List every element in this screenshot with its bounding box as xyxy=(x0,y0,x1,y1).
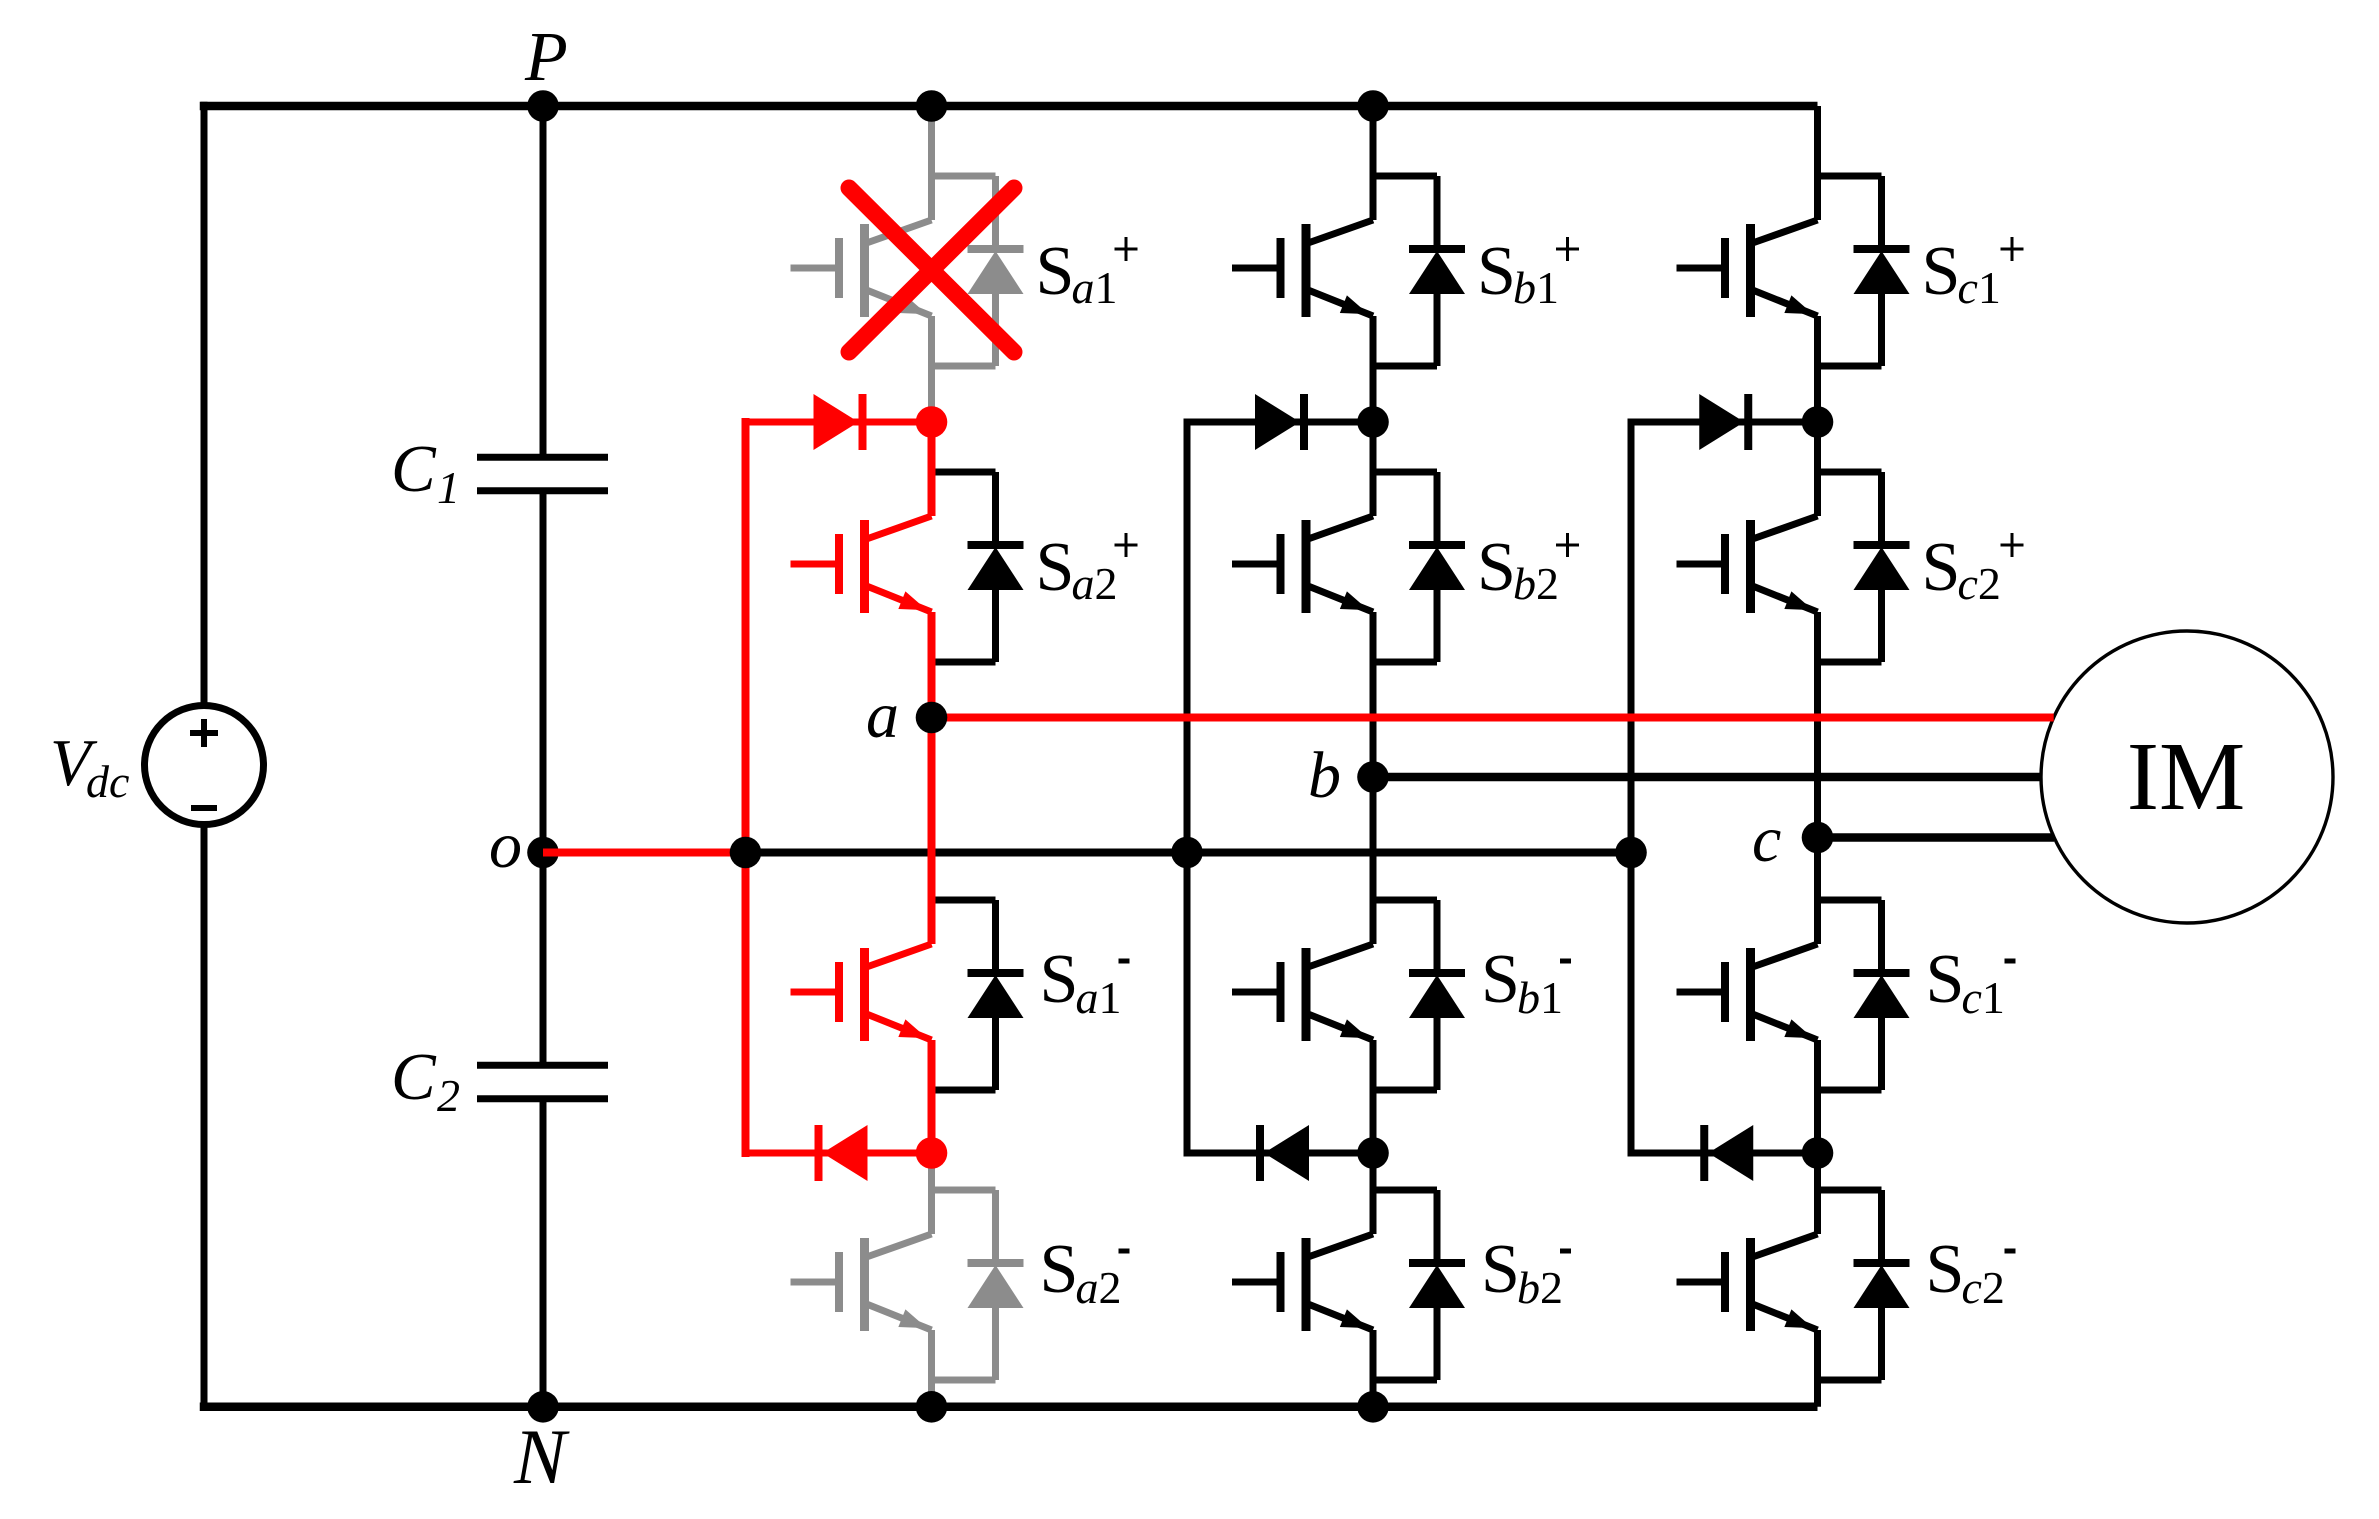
label Sa2- xyxy=(1040,1231,1130,1313)
diode clamp lower Da2 (red) xyxy=(746,1125,932,1181)
wire DC link C2 to N xyxy=(540,1102,547,1407)
svg-text:S: S xyxy=(1481,1231,1520,1308)
diode clamp lower Db2 xyxy=(1187,1125,1373,1181)
svg-text:S: S xyxy=(1922,529,1961,606)
label c xyxy=(1752,803,1781,876)
label Sc1- xyxy=(1926,941,2016,1023)
wire b-leg Sb1+ emitter to Sb2+ collector xyxy=(1370,316,1377,516)
label Vdc xyxy=(50,726,129,807)
svg-text:b2: b2 xyxy=(1517,1262,1563,1313)
svg-text:a2: a2 xyxy=(1076,1262,1122,1313)
diode antiparallel of Sb1- xyxy=(1373,900,1465,1090)
svg-text:S: S xyxy=(1926,1231,1965,1308)
node N (dot) xyxy=(527,1391,559,1423)
wire red Sa2+ collector xyxy=(928,422,936,516)
transistor Sb2- (IGBT) xyxy=(1232,1234,1373,1331)
wire phase a output to motor (red) xyxy=(932,714,2054,722)
label o xyxy=(489,809,522,882)
svg-text:S: S xyxy=(1036,529,1075,606)
diode antiparallel of Sb2+ xyxy=(1373,472,1465,662)
wire DC link C1 to o xyxy=(540,494,547,853)
node phase b (dot) xyxy=(1357,761,1389,793)
svg-text:c2: c2 xyxy=(1958,558,2001,609)
node phase a (dot) xyxy=(916,702,948,734)
svg-text:S: S xyxy=(1926,941,1965,1018)
label Sc2+ xyxy=(1922,529,2024,609)
svg-text:2: 2 xyxy=(437,1070,460,1121)
wire clamp vertical leg c xyxy=(1628,419,1635,1157)
svg-text:c1: c1 xyxy=(1962,972,2005,1023)
label Sa2+ xyxy=(1036,529,1138,609)
wire c-leg collector lead Sc1+ xyxy=(1814,106,1821,220)
diode clamp upper Dc1 xyxy=(1631,394,1818,450)
wire DC link P to C1 xyxy=(540,106,547,454)
transistor Sb1+ (IGBT) xyxy=(1232,220,1373,317)
transistor Sc2- (IGBT) xyxy=(1677,1234,1818,1331)
svg-text:S: S xyxy=(1040,1231,1079,1308)
node upper clamp junction leg b (dot) xyxy=(1357,406,1389,438)
svg-text:P: P xyxy=(524,19,568,96)
svg-text:c2: c2 xyxy=(1962,1262,2005,1313)
transistor Sb1- (IGBT) xyxy=(1232,944,1373,1041)
wire b-leg Sb2+ emitter through node b to Sb1- collector xyxy=(1370,612,1377,944)
svg-text:1: 1 xyxy=(437,462,460,513)
node bottom rail junction leg a (dot) xyxy=(916,1391,948,1423)
wire red Sa1- emitter to clamp xyxy=(928,1040,936,1153)
diode antiparallel of Sa1- (black) xyxy=(932,900,1024,1090)
node red junction lower clamp leg a xyxy=(916,1137,948,1169)
transistor Sc2+ (IGBT) xyxy=(1677,516,1818,613)
wire c-leg Sc1- emitter to lower clamp xyxy=(1814,1040,1821,1153)
label Sa1+ xyxy=(1036,233,1138,313)
label Sa1- xyxy=(1040,941,1130,1023)
svg-text:b: b xyxy=(1308,739,1341,812)
wire phase c output to motor xyxy=(1818,833,2055,842)
diode clamp upper Db1 xyxy=(1187,394,1373,450)
diode clamp lower Dc2 xyxy=(1631,1125,1818,1181)
label b xyxy=(1308,739,1341,812)
wire red Sa2+ emitter to node a xyxy=(928,612,936,718)
svg-text:a: a xyxy=(866,679,899,752)
svg-text:N: N xyxy=(513,1413,570,1500)
node top rail junction leg a (dot) xyxy=(916,90,948,122)
diode antiparallel of Sa2+ (black) xyxy=(932,472,1024,662)
label Sb1- xyxy=(1481,941,1571,1023)
wire b-leg collector lead Sb1+ xyxy=(1370,106,1377,220)
diode antiparallel of Sc2- xyxy=(1818,1190,1910,1380)
node P (dot) xyxy=(527,90,559,122)
source Vdc circle xyxy=(145,706,264,825)
node bottom rail junction leg b (dot) xyxy=(1357,1391,1389,1423)
node phase c (dot) xyxy=(1802,822,1834,854)
diode antiparallel of Sc2+ xyxy=(1818,472,1910,662)
svg-text:S: S xyxy=(1036,233,1075,310)
node o (dot) xyxy=(527,837,559,869)
transistor Sb2+ (IGBT) xyxy=(1232,516,1373,613)
svg-text:c1: c1 xyxy=(1958,262,2001,313)
wire gray collector lead Sa2- xyxy=(928,1153,935,1234)
label a xyxy=(866,679,899,752)
transistor Sa1- (red IGBT) xyxy=(791,944,932,1041)
node upper clamp junction leg c (dot) xyxy=(1802,406,1834,438)
svg-text:S: S xyxy=(1922,233,1961,310)
source Vdc plus sign xyxy=(190,719,218,747)
diode antiparallel of Sc1+ xyxy=(1818,176,1910,366)
wire b-leg Sb2- emitter to bottom rail xyxy=(1370,1330,1377,1407)
fault cross over Sa1+ (red X) xyxy=(849,188,1014,352)
source Vdc minus sign xyxy=(191,805,217,811)
node lower clamp junction leg c (dot) xyxy=(1802,1137,1834,1169)
svg-text:IM: IM xyxy=(2127,723,2246,830)
motor IM circle xyxy=(2041,631,2333,923)
wire red clamp vertical leg a xyxy=(742,418,750,1157)
wire c-leg Sc2- emitter to bottom rail xyxy=(1814,1330,1821,1407)
svg-text:S: S xyxy=(1040,941,1079,1018)
svg-text:a1: a1 xyxy=(1072,262,1118,313)
label Sb1+ xyxy=(1477,233,1579,313)
diode antiparallel of Sa1+ (gray) xyxy=(932,176,1024,366)
label IM xyxy=(2127,723,2246,830)
svg-text:S: S xyxy=(1481,941,1520,1018)
diode antiparallel of Sa2- (gray) xyxy=(932,1190,1024,1380)
svg-text:C: C xyxy=(391,432,437,506)
label Sb2- xyxy=(1481,1231,1571,1313)
svg-text:a1: a1 xyxy=(1076,972,1122,1023)
transistor Sa1+ (gray, failed IGBT) xyxy=(791,220,932,317)
transistor Sc1+ (IGBT) xyxy=(1677,220,1818,317)
wire left vertical lower (source -) xyxy=(201,825,208,1412)
capacitor C2 xyxy=(477,1065,608,1099)
node top rail junction leg b (dot) xyxy=(1357,90,1389,122)
svg-text:b1: b1 xyxy=(1517,972,1563,1023)
diode antiparallel of Sc1- xyxy=(1818,900,1910,1090)
svg-text:b1: b1 xyxy=(1513,262,1559,313)
svg-text:o: o xyxy=(489,809,522,882)
label C2 xyxy=(391,1040,460,1121)
label P xyxy=(524,19,568,96)
wire red o to junction xyxy=(543,849,746,857)
svg-text:S: S xyxy=(1477,529,1516,606)
svg-text:dc: dc xyxy=(86,756,129,807)
capacitor C1 xyxy=(477,457,608,491)
node lower clamp junction leg b (dot) xyxy=(1357,1137,1389,1169)
svg-text:c: c xyxy=(1752,803,1781,876)
wire gray emitter lead Sa2- xyxy=(928,1330,935,1407)
wire bottom rail N xyxy=(200,1403,1818,1412)
transistor Sa2- (gray, off IGBT) xyxy=(791,1234,932,1331)
label Sc2- xyxy=(1926,1231,2016,1313)
diode antiparallel of Sb1+ xyxy=(1373,176,1465,366)
wire left vertical upper (source +) xyxy=(201,102,208,706)
transistor Sc1- (IGBT) xyxy=(1677,944,1818,1041)
wire b-leg Sb1- emitter to lower clamp xyxy=(1370,1040,1377,1153)
svg-text:S: S xyxy=(1477,233,1516,310)
wire top rail P xyxy=(200,102,1818,111)
wire c-leg Sc1+ emitter to Sc2+ collector xyxy=(1814,316,1821,516)
svg-text:b2: b2 xyxy=(1513,558,1559,609)
wire c-leg Sc2+ emitter through node c to Sc1- collector xyxy=(1814,612,1821,944)
wire clamp vertical leg b xyxy=(1184,419,1191,1157)
wire b-leg Sb2- collector lead xyxy=(1370,1153,1377,1234)
svg-text:a2: a2 xyxy=(1072,558,1118,609)
node junction o-line at c clamp (dot) xyxy=(1615,837,1647,869)
wire c-leg Sc2- collector lead xyxy=(1814,1153,1821,1234)
node red junction upper clamp leg a xyxy=(916,406,948,438)
label Sc1+ xyxy=(1922,233,2024,313)
node junction o-line at b clamp (dot) xyxy=(1171,837,1203,869)
wire o line black segment xyxy=(746,849,1632,857)
transistor Sa2+ (red IGBT) xyxy=(791,516,932,613)
wire gray collector lead Sa1+ xyxy=(928,106,935,220)
wire DC link o to C2 xyxy=(540,853,547,1063)
label C1 xyxy=(391,432,460,513)
wire red node a to Sa1- collector xyxy=(928,718,936,945)
label N xyxy=(513,1413,570,1500)
wire phase b output to motor xyxy=(1373,773,2041,782)
wire gray emitter lead Sa1+ xyxy=(928,316,935,422)
diode antiparallel of Sb2- xyxy=(1373,1190,1465,1380)
label Sb2+ xyxy=(1477,529,1579,609)
svg-text:C: C xyxy=(391,1040,437,1114)
node junction o-line at a clamp (dot) xyxy=(730,837,762,869)
diode clamp upper Da1 (red) xyxy=(746,394,932,450)
